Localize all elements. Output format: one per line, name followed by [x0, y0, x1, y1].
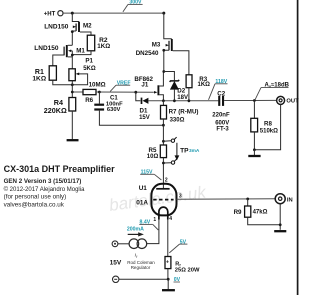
svg-text:47kΩ: 47kΩ	[253, 210, 268, 216]
svg-text:10Ω: 10Ω	[147, 154, 159, 160]
wire VREF row	[71, 91, 83, 94]
wire IN shield	[279, 203, 282, 230]
svg-text:M3: M3	[152, 42, 161, 49]
terminal + 15V	[112, 241, 129, 247]
svg-text:f: f	[136, 255, 137, 259]
resistor R5	[147, 145, 167, 189]
transistor M3 DN2540	[136, 13, 189, 75]
svg-text:R5: R5	[149, 147, 157, 154]
svg-text:+HT: +HT	[44, 11, 56, 17]
net label 118V	[209, 79, 228, 100]
svg-text:1KΩ: 1KΩ	[32, 76, 46, 83]
resistor R3	[186, 75, 210, 101]
terminal OUT	[277, 96, 299, 104]
capacitor C2	[212, 91, 230, 133]
svg-text:+: +	[166, 260, 169, 266]
transistor M2 LND150	[44, 13, 92, 45]
transistor J1 BF862	[134, 72, 163, 101]
svg-text:TP: TP	[180, 148, 189, 155]
net label 200mA	[127, 227, 144, 237]
svg-text:15V: 15V	[110, 260, 122, 267]
current source If (Rod Coleman)	[110, 239, 156, 270]
resistor R8	[251, 101, 278, 150]
svg-text:10MΩ: 10MΩ	[89, 82, 106, 89]
wire OUT jack shield to ground	[253, 104, 281, 151]
svg-text:DN2540: DN2540	[136, 50, 159, 57]
svg-text:bartola.co.uk: bartola.co.uk	[108, 182, 209, 215]
svg-text:OUT: OUT	[286, 99, 299, 105]
tube U1 01A	[136, 177, 182, 222]
svg-text:510kΩ: 510kΩ	[260, 129, 278, 135]
net label 0V	[174, 277, 181, 283]
svg-text:IN: IN	[287, 197, 293, 203]
title block	[4, 164, 116, 208]
node junction rail/M3	[162, 12, 165, 15]
svg-text:630V: 630V	[107, 107, 121, 113]
net label 5V	[169, 239, 187, 253]
net label 300V	[123, 0, 143, 12]
label Av=18dB	[255, 83, 289, 100]
terminal IN	[275, 194, 293, 204]
svg-text:© 2012-2017 Alejandro Moglia: © 2012-2017 Alejandro Moglia	[4, 186, 85, 193]
resistor R2	[72, 35, 110, 54]
svg-text:1KΩ: 1KΩ	[97, 43, 110, 50]
wire bottom return	[119, 278, 170, 281]
svg-text:5KΩ: 5KΩ	[83, 66, 96, 72]
svg-text:M2: M2	[83, 22, 92, 29]
svg-text:330Ω: 330Ω	[170, 118, 185, 124]
svg-text:R8: R8	[264, 121, 272, 128]
resistor R4	[44, 98, 76, 140]
right border line	[297, 0, 299, 295]
ground (left rail)	[67, 139, 79, 141]
terminal +HT	[44, 11, 63, 18]
svg-text:D1: D1	[140, 107, 148, 114]
svg-text:600V: 600V	[215, 120, 229, 126]
transistor M1 LND150	[34, 45, 85, 69]
svg-text:J1: J1	[141, 82, 148, 89]
svg-text:220KΩ: 220KΩ	[44, 106, 67, 115]
svg-text:D2: D2	[177, 87, 185, 94]
wire filament right leg	[167, 220, 169, 257]
resistor Rf 25ohm 20W	[165, 257, 200, 280]
svg-text:R9: R9	[234, 209, 242, 216]
wire top rail	[63, 12, 164, 14]
wire to R5	[162, 125, 165, 145]
svg-text:200mA: 200mA	[127, 227, 144, 233]
svg-text:25Ω 20W: 25Ω 20W	[175, 267, 200, 273]
net label 8.4V	[139, 220, 158, 230]
svg-text:Regulator: Regulator	[131, 265, 151, 270]
svg-text:LND150: LND150	[44, 24, 69, 31]
watermark	[108, 182, 209, 215]
net label 115V	[140, 170, 161, 181]
wire grid row to IN	[177, 198, 276, 201]
diode D2 zener 18V	[164, 72, 188, 101]
resistor R6	[83, 82, 106, 104]
resistor R7 R-MU	[161, 101, 199, 125]
ground (IN)	[274, 230, 286, 232]
svg-text:3mA: 3mA	[189, 148, 200, 154]
svg-text:P1: P1	[85, 58, 93, 65]
net label VREF	[110, 80, 130, 91]
svg-text:FT-3: FT-3	[216, 127, 229, 133]
svg-text:R7 (R-MU): R7 (R-MU)	[169, 108, 199, 115]
resistor R1	[32, 66, 72, 85]
wire C2 to OUT	[224, 99, 276, 102]
svg-text:01A: 01A	[136, 200, 148, 207]
test point TP 3mA	[163, 137, 200, 164]
node plate filter	[162, 124, 165, 127]
ground (R8/OUT)	[248, 150, 260, 156]
svg-text:4: 4	[169, 216, 172, 222]
svg-text:R6: R6	[85, 97, 93, 104]
svg-text:GEN 2 Version 3 (15/01/17): GEN 2 Version 3 (15/01/17)	[4, 178, 82, 185]
potentiometer P1	[69, 58, 96, 98]
wire filament left leg	[147, 220, 159, 244]
wire anode row (J1 source to C2)	[148, 99, 218, 102]
svg-text:15V: 15V	[139, 115, 150, 121]
svg-text:220nF: 220nF	[212, 113, 230, 119]
terminal - 15V	[113, 276, 119, 282]
wire R6 to J1 gate	[96, 91, 154, 94]
svg-text:1: 1	[153, 217, 156, 223]
ground (bottom)	[162, 279, 175, 290]
capacitor C1	[94, 92, 163, 125]
svg-text:CX-301a DHT Preamplifier: CX-301a DHT Preamplifier	[4, 164, 116, 174]
svg-text:LND150: LND150	[34, 45, 59, 52]
svg-text:2: 2	[165, 177, 168, 183]
svg-text:valves@bartola.co.uk: valves@bartola.co.uk	[4, 201, 65, 208]
svg-text:M1: M1	[76, 48, 85, 55]
diode D1 15V	[136, 92, 150, 121]
svg-text:3: 3	[179, 194, 182, 200]
node junction +HT/M2	[71, 12, 74, 15]
svg-text:1KΩ: 1KΩ	[198, 82, 211, 88]
resistor R9	[234, 199, 281, 225]
svg-text:(for personal use only): (for personal use only)	[4, 194, 67, 201]
svg-text:18V: 18V	[177, 95, 188, 101]
svg-text:U1: U1	[139, 185, 148, 192]
node M3 gate / J1 drain	[162, 70, 165, 73]
